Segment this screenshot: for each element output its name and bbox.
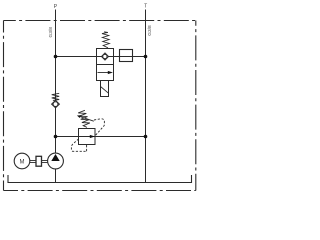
valve V1 solenoid (101, 81, 109, 97)
wire relief branch line (P junction to T junction through RV1) (56, 136, 146, 138)
coupling (36, 156, 42, 166)
wire pump outlet to tank manifold (55, 169, 57, 183)
pump P1 flow direction triangle (51, 154, 59, 161)
valve V1 return spring (top) (102, 32, 109, 48)
shaft coupling to pump (42, 161, 48, 163)
wire main pressure line P to T (through valve V1) (56, 56, 146, 58)
node junction T / main line (144, 55, 148, 59)
check valve CV1 seat diamond (52, 100, 60, 108)
check valve CV1 spring (52, 93, 60, 100)
svg-text:G3/8: G3/8 (48, 27, 54, 38)
wire P line vertical (port P down to pump) (55, 10, 57, 154)
valve V1 connector box (right) (120, 50, 133, 62)
svg-text:T: T (144, 3, 147, 9)
tank manifold line with end stubs (8, 175, 192, 183)
node junction P / relief branch (54, 135, 58, 139)
node junction P / main line (54, 55, 58, 59)
shaft motor to coupling (30, 161, 36, 163)
valve V1 position box 2 (open flow) (97, 65, 114, 81)
relief valve RV1 spring (78, 110, 90, 127)
valve V1 position box 1 (check function) (97, 49, 114, 65)
valve V1 position 1 poppet ball (103, 54, 107, 58)
valve V1 position 1 seat diamond (102, 53, 109, 60)
relief valve RV1 body (79, 129, 96, 145)
relief valve RV1 adjustment arrow (77, 115, 94, 121)
valve V1 position 2 flow arrow (98, 71, 113, 74)
relief valve RV1 remote pilot line (dashed, right) (94, 119, 104, 135)
relief valve RV1 flow arrow (90, 135, 95, 138)
wire T line vertical (port T down to tank manifold) (145, 10, 147, 183)
motor M1 circle (14, 153, 30, 169)
svg-text:G3/8: G3/8 (147, 25, 153, 36)
node junction T / relief branch (144, 135, 148, 139)
check valve CV1 ball (53, 102, 58, 107)
enclosure boundary (power unit, dash-dot) (4, 21, 196, 191)
svg-text:M: M (20, 159, 25, 165)
relief valve RV1 pilot sense line (dashed, bottom) (71, 139, 86, 151)
pump P1 circle (48, 153, 64, 169)
